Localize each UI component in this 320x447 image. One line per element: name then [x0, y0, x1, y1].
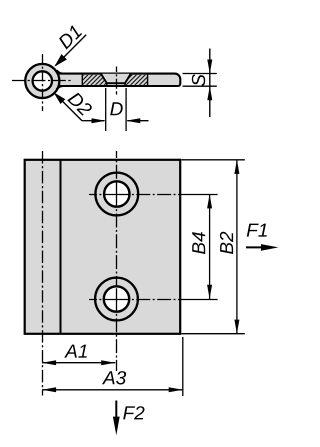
force arrow F1: [246, 244, 278, 251]
hole top outer circle: [95, 173, 138, 216]
countersink bore walls: [107, 83, 125, 86]
fillet bottom at eye-strip junction: [57, 86, 63, 89]
dimension A3: [42, 387, 183, 392]
label D2: [67, 93, 92, 116]
dimension B2: [234, 160, 239, 334]
label S: [192, 74, 205, 86]
hole bottom outer circle: [95, 278, 138, 321]
top hole horizontal centerline: [89, 194, 218, 196]
dimension B2 extension lines: [182, 160, 245, 334]
dimension S arrows: [207, 49, 212, 118]
eye vertical centerline: [42, 54, 44, 111]
section break line right: [147, 75, 149, 86]
eye horizontal centerline: [12, 80, 72, 82]
force arrow F2: [113, 401, 120, 436]
hatched section right of countersink: [125, 75, 148, 85]
leader D2: [53, 92, 82, 121]
label B4: [192, 232, 205, 254]
hinge eye bore circle: [33, 71, 52, 90]
plate strip (side view): [56, 74, 180, 86]
plate outline: [25, 160, 181, 334]
hole bottom bore: [104, 286, 129, 311]
hole top bore: [104, 181, 129, 206]
section break line left: [81, 75, 83, 86]
label D1: [59, 25, 82, 49]
eye centerline main view: [42, 151, 44, 396]
holes vertical centerline: [116, 151, 118, 371]
dimension A1: [42, 360, 115, 365]
label F1: [247, 224, 267, 237]
section hole centerline: [116, 67, 118, 95]
hatched section left of countersink: [82, 75, 107, 85]
fillet top at eye-strip junction: [57, 70, 63, 73]
label A1: [64, 345, 87, 358]
dimension S extension lines: [183, 74, 217, 87]
label B2: [220, 232, 233, 254]
eye tangent line: [60, 160, 62, 334]
countersink cone: [101, 74, 131, 84]
label D: [110, 102, 123, 115]
leader D1: [54, 35, 86, 67]
bottom hole horizontal centerline: [89, 299, 218, 301]
dimension B4: [207, 194, 212, 299]
label A3: [102, 371, 126, 384]
label F2: [123, 406, 144, 419]
dimension D extension lines: [106, 88, 126, 131]
dimension D arrows: [82, 118, 149, 123]
dimension A3 extension line right: [182, 337, 184, 396]
hinge eye outer circle: [25, 64, 59, 98]
